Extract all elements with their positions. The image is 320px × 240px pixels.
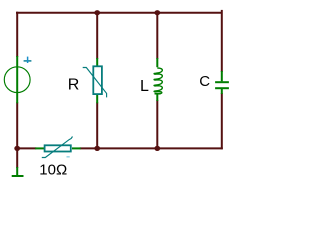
svg-text:L: L [140, 78, 149, 95]
svg-text:10Ω: 10Ω [39, 162, 67, 179]
svg-text:R: R [68, 76, 80, 93]
svg-text:C: C [199, 73, 210, 90]
